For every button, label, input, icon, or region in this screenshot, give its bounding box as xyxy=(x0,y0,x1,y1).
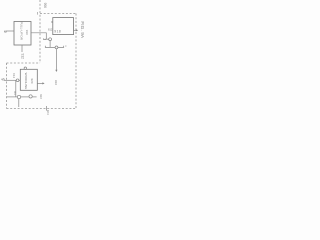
arrowhead end of vertical wire xyxy=(55,70,57,72)
svg-text:910: 910 xyxy=(25,30,29,35)
svg-text:916: 916 xyxy=(54,80,58,85)
wire Q4 to Q5 xyxy=(21,96,29,98)
block B2 wordline driver 920 xyxy=(20,69,37,90)
dashed boundary segment H2 (bottom edge y=108.5) xyxy=(7,108,77,110)
svg-text:922: 922 xyxy=(39,94,43,99)
bubble Q3 at B2 input xyxy=(16,79,19,82)
dashed boundary segment V1 (vertical, x=40, top) xyxy=(39,0,41,63)
wire bubble to B2 xyxy=(19,79,20,81)
block B3 (top right) 918 xyxy=(53,18,74,35)
tick at V1/H1 junction xyxy=(37,12,39,15)
svg-text:84: 84 xyxy=(13,91,17,95)
arrowhead of B2 output xyxy=(42,82,44,84)
svg-text:918: 918 xyxy=(54,30,61,34)
wire J2 to transistor Q1 xyxy=(45,38,49,40)
transistor bubble Q1 xyxy=(49,38,52,41)
block B1 pull-up driver 910 xyxy=(14,22,31,46)
svg-text:912: 912 xyxy=(21,54,25,60)
bubble on B2 top edge xyxy=(24,67,26,69)
svg-text:920: 920 xyxy=(30,78,34,83)
svg-text:812: 812 xyxy=(48,27,53,31)
dashed boundary segment V2 (right edge x=75) xyxy=(75,14,77,109)
output arrow from B2 xyxy=(37,82,43,84)
dashed boundary segment V3 (left edge x=6.5) xyxy=(6,63,8,109)
transistor bubble Q5 xyxy=(29,95,32,98)
dashed boundary segment H1 (top edge y=13.5) xyxy=(40,13,76,15)
wire input to bubble xyxy=(4,79,16,81)
wire boundary to Q4 xyxy=(7,96,18,98)
tick on bottom dashed boundary xyxy=(46,106,48,111)
wire Q1 down xyxy=(49,41,51,48)
wire B1 output right xyxy=(31,33,46,39)
svg-text:924: 924 xyxy=(46,110,50,115)
wire horizontal with end ticks xyxy=(45,46,63,48)
wire Q4 down to boundary xyxy=(18,99,20,107)
arrow B3 to right boundary xyxy=(74,29,78,31)
svg-text:PULL-UP DR: PULL-UP DR xyxy=(20,22,24,41)
transistor bubble Q4 xyxy=(17,95,20,98)
transistor bubble Q2 xyxy=(55,46,58,49)
arrowhead of B3 arrow xyxy=(76,29,78,31)
svg-text:914: 914 xyxy=(12,73,16,78)
wire Q5 stub down xyxy=(32,96,36,98)
svg-text:WORDLINE: WORDLINE xyxy=(24,73,28,90)
svg-text:906: 906 xyxy=(43,3,47,9)
dashed boundary segment H3 (step edge y=63) xyxy=(7,62,41,64)
wire input to B1 xyxy=(5,30,14,32)
wire down from input junction xyxy=(15,80,17,97)
wire Q2 long vertical down xyxy=(55,49,57,71)
svg-text:FIG. 9A: FIG. 9A xyxy=(80,21,84,39)
wire B1 bottom stub xyxy=(21,45,23,52)
